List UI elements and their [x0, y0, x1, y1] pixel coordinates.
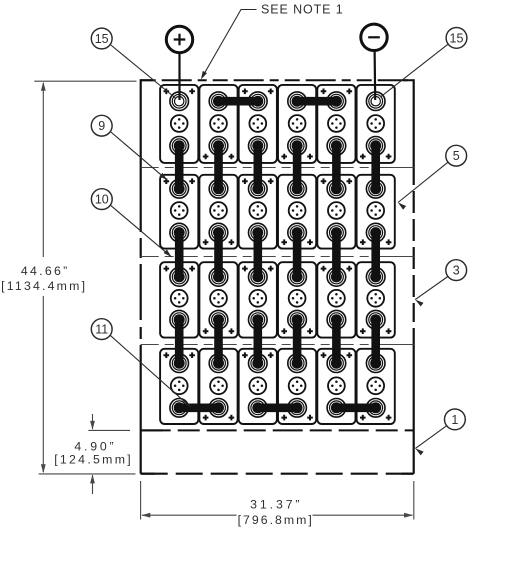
- connector rows3-4 col1: [174, 314, 185, 369]
- dimension 31.37in dimension line: [141, 513, 413, 518]
- negative post symbol: [361, 24, 387, 50]
- connector rows1-2 col5: [331, 140, 342, 194]
- battery cell row 1 col 6: [357, 85, 395, 163]
- connector rows2-3 col1: [174, 227, 185, 282]
- connector row4 bottom cols5-6: [331, 402, 381, 413]
- SEE NOTE 1 label: [261, 3, 344, 17]
- terminal detail ring: [371, 97, 380, 106]
- balloon callout 9 (inter-tier connector): [91, 115, 167, 180]
- balloon callout 10 (inter-tier connector): [91, 189, 171, 257]
- connector rows2-3 col6: [370, 227, 381, 282]
- balloon callout 5 (battery module): [398, 145, 467, 209]
- svg-text:11: 11: [95, 323, 108, 337]
- svg-text:44.66”: 44.66”: [21, 264, 70, 278]
- dimension text 1134.4mm: [1, 279, 87, 293]
- positive post symbol: [166, 26, 192, 52]
- dimension 31.37in extension line left: [140, 481, 142, 520]
- cabinet top edge (hidden line): [141, 79, 414, 81]
- battery cell row 2 col 5: [317, 175, 355, 249]
- shelf divider line 2: [141, 256, 414, 258]
- connector rows2-3 col2: [213, 227, 224, 282]
- terminal detail ring: [175, 97, 184, 106]
- battery cell row 4 col 5: [317, 349, 355, 424]
- connector rows2-3 col3: [252, 227, 263, 282]
- connector row1 top cols4-5: [292, 96, 342, 107]
- dimension 4.90in arrow top: [90, 414, 95, 430]
- dimension 31.37in extension line right: [413, 481, 415, 520]
- svg-text:SEE NOTE 1: SEE NOTE 1: [261, 3, 344, 17]
- dimension 44.66in dimension line: [41, 82, 46, 474]
- battery cell row 1 col 3: [239, 85, 277, 163]
- connector rows2-3 col4: [292, 227, 303, 282]
- dimension 44.66in extension line bottom: [39, 473, 136, 475]
- balloon callout 15 (post terminal left): [91, 28, 176, 98]
- svg-text:31.37”: 31.37”: [250, 498, 302, 512]
- balloon callout 3 (cabinet): [415, 260, 466, 307]
- connector rows3-4 col5: [331, 314, 342, 369]
- dimension text 796.8mm: [238, 513, 314, 527]
- svg-text:9: 9: [98, 119, 105, 133]
- battery cell row 3 col 4: [278, 262, 316, 337]
- cabinet left side wall: [140, 79, 142, 473]
- battery cell row 3 col 6: [357, 262, 395, 337]
- battery cell row 2 col 6: [357, 175, 395, 249]
- connector rows1-2 col2: [213, 140, 224, 194]
- svg-text:1: 1: [451, 413, 458, 427]
- svg-text:[1134.4mm]: [1134.4mm]: [1, 279, 87, 293]
- battery cell row 2 col 1: [160, 175, 198, 249]
- connector row4 bottom cols3-4: [252, 402, 302, 413]
- cabinet right side wall: [413, 79, 415, 473]
- svg-text:10: 10: [95, 193, 109, 207]
- balloon callout 11 (inter-cell connector): [91, 319, 190, 407]
- connector rows1-2 col3: [252, 140, 263, 194]
- connector rows2-3 col5: [331, 227, 342, 282]
- balloon callout 15 (post terminal right): [381, 28, 467, 98]
- connector rows1-2 col6: [370, 140, 381, 194]
- connector rows1-2 col4: [292, 140, 303, 194]
- battery cell row 1 col 4: [278, 85, 316, 163]
- battery cell row 3 col 5: [317, 262, 355, 337]
- connector rows3-4 col6: [370, 314, 381, 369]
- battery cell row 3 col 1: [160, 262, 198, 337]
- svg-text:4.90”: 4.90”: [74, 440, 116, 454]
- svg-text:5: 5: [453, 149, 460, 163]
- note leader line: [201, 10, 257, 80]
- connector row1 top cols2-3: [213, 96, 263, 107]
- svg-text:15: 15: [95, 32, 109, 46]
- svg-text:[124.5mm]: [124.5mm]: [54, 453, 133, 467]
- cabinet bottom edge (hidden line): [141, 473, 414, 475]
- battery cell row 4 col 3: [239, 349, 277, 424]
- balloon callout 1 (tray): [415, 409, 465, 455]
- battery cell row 2 col 2: [199, 175, 237, 249]
- dimension text 4.90in: [74, 440, 116, 454]
- battery cell row 4 col 4: [278, 349, 316, 424]
- connector row4 bottom cols1-2: [174, 402, 224, 413]
- dimension text 31.37in: [250, 498, 302, 512]
- shelf divider line 1: [141, 167, 414, 169]
- dimension text 44.66in: [21, 264, 70, 278]
- positive post cable: [178, 52, 180, 100]
- battery cell row 3 col 3: [239, 262, 277, 337]
- dimension 44.66in extension line top: [34, 80, 136, 82]
- battery cell row 4 col 1: [160, 349, 198, 424]
- battery cell row 1 col 2: [199, 85, 237, 163]
- connector rows3-4 col3: [252, 314, 263, 369]
- svg-text:3: 3: [453, 264, 460, 278]
- battery cell row 4 col 6: [357, 349, 395, 424]
- battery cell row 1 col 1: [160, 85, 198, 163]
- connector rows3-4 col4: [292, 314, 303, 369]
- shelf divider line 3: [141, 344, 414, 346]
- battery cell row 4 col 2: [199, 349, 237, 424]
- connector rows1-2 col1: [174, 140, 185, 194]
- dimension text 124.5mm: [54, 453, 133, 467]
- connector rows3-4 col2: [213, 314, 224, 369]
- tray top edge (hidden line): [141, 429, 414, 431]
- dimension 4.90in extension line: [88, 429, 130, 431]
- battery cell row 3 col 2: [199, 262, 237, 337]
- negative post cable: [374, 50, 377, 100]
- svg-text:15: 15: [450, 31, 464, 45]
- svg-text:[796.8mm]: [796.8mm]: [238, 513, 314, 527]
- battery cell row 2 col 4: [278, 175, 316, 249]
- battery cell row 1 col 5: [317, 85, 355, 163]
- dimension 4.90in arrow bottom: [90, 474, 95, 494]
- battery cell row 2 col 3: [239, 175, 277, 249]
